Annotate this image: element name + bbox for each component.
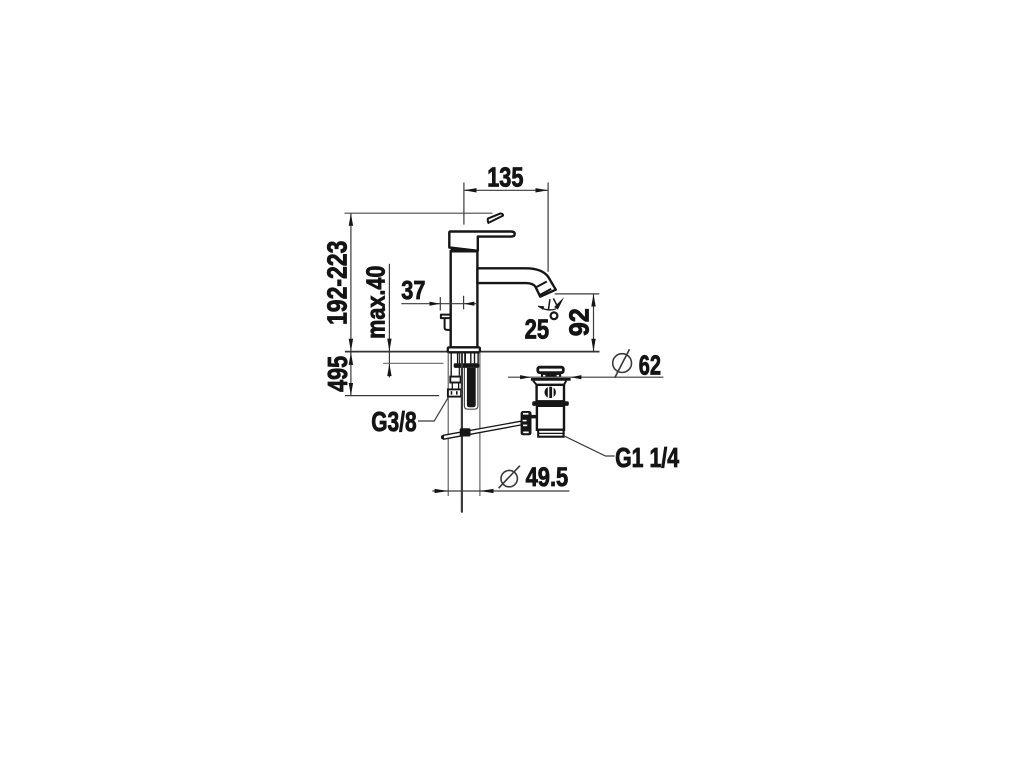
drain upper body (537, 385, 564, 402)
dimension 135 line (464, 183, 548, 272)
G3/8 nipple (448, 389, 461, 396)
faucet body (451, 251, 478, 347)
drain screw (545, 387, 556, 398)
aerator seam 2 (540, 289, 551, 295)
extension line left (d49.5) (447, 352, 449, 496)
dimension 37 line (401, 296, 477, 311)
drain lower body (537, 406, 564, 430)
spout (477, 268, 555, 296)
drain cap (538, 367, 564, 372)
svg-text:49.5: 49.5 (526, 462, 569, 492)
dimension d49.5 line (432, 489, 569, 493)
angle 25 deg indicator (538, 297, 565, 310)
shank lines under deck (451, 353, 478, 377)
pull rod (461, 353, 463, 513)
pop-up rod knob on body (441, 315, 451, 330)
aerator seam 1 (537, 282, 547, 287)
svg-text:37: 37 (401, 275, 425, 305)
G3/8 collar (450, 377, 460, 383)
deck / mounting surface line (345, 351, 600, 353)
svg-text:G3/8: G3/8 (371, 406, 416, 437)
leader G1 1/4 (564, 436, 615, 456)
drain tail (538, 430, 563, 437)
handle seam (451, 249, 476, 251)
label d49.5 (501, 470, 517, 486)
svg-text:92: 92 (563, 308, 594, 336)
dimension 92 line (555, 294, 600, 352)
drain flange (531, 378, 571, 381)
label d62 (613, 354, 632, 373)
dimension 495 line (345, 352, 439, 396)
extension line right (d49.5) (479, 352, 481, 496)
svg-text:25: 25 (525, 313, 550, 344)
rod pivot block (460, 428, 471, 436)
leader G3/8 (418, 398, 448, 421)
svg-text:G1 1/4: G1 1/4 (615, 442, 680, 473)
lever rod end cap (441, 435, 444, 440)
hose outline (464, 368, 478, 409)
dimension d62 line (508, 375, 663, 379)
lever tip (raised position) (488, 213, 503, 223)
dimension max.40 line (383, 264, 443, 378)
flexible hose (467, 368, 476, 407)
mounting nut (454, 363, 480, 368)
svg-text:max.40: max.40 (361, 266, 391, 339)
lever rod (443, 421, 521, 439)
base flange (448, 347, 480, 352)
drain nut band (532, 401, 569, 406)
dimension 192-223 line (349, 213, 353, 351)
knurl-body link (530, 415, 538, 419)
svg-text:135: 135 (487, 161, 523, 192)
wire top reference line (lever max height) (345, 212, 493, 214)
svg-text:62: 62 (639, 350, 661, 381)
tube to nipple (451, 383, 453, 390)
rod connector knurl (521, 411, 532, 435)
svg-text:192-223: 192-223 (321, 241, 352, 325)
faucet handle lever (449, 232, 514, 251)
svg-text:495: 495 (322, 356, 353, 392)
